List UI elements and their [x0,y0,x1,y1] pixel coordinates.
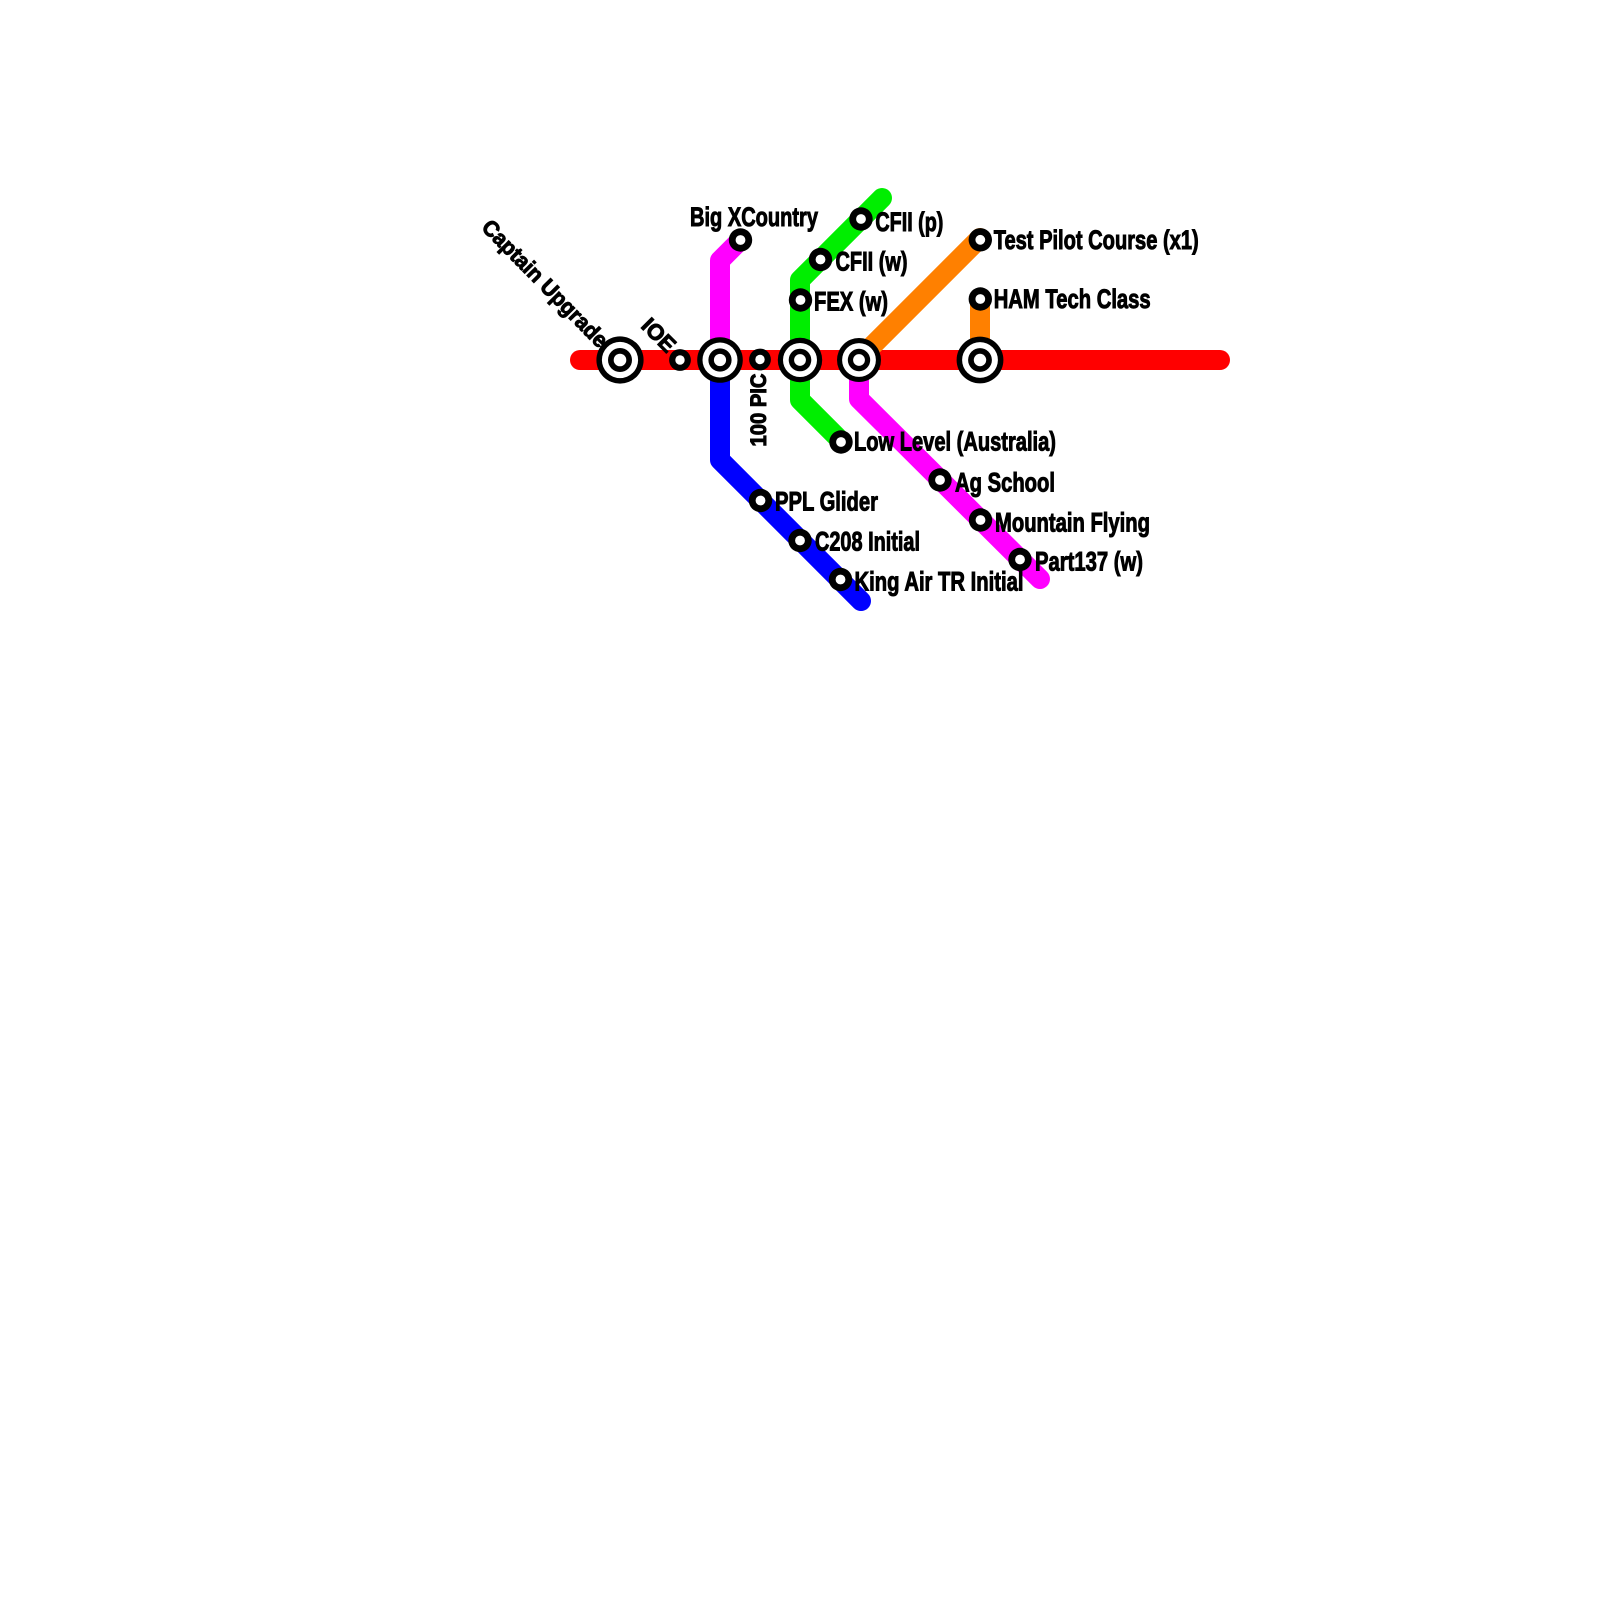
svg-text:HAM Tech Class: HAM Tech Class [994,284,1151,314]
svg-text:100 PIC: 100 PIC [746,373,771,446]
svg-text:Big XCountry: Big XCountry [690,202,818,232]
svg-text:FEX (w): FEX (w) [814,287,888,317]
svg-text:CFII (p): CFII (p) [875,207,943,237]
svg-text:Low Level (Australia): Low Level (Australia) [854,426,1056,456]
svg-text:Mountain Flying: Mountain Flying [995,507,1150,537]
svg-text:Part137 (w): Part137 (w) [1035,546,1143,576]
svg-text:Ag School: Ag School [955,467,1055,497]
svg-text:King Air TR Initial: King Air TR Initial [855,566,1024,596]
svg-text:CFII (w): CFII (w) [836,247,908,277]
svg-text:PPL Glider: PPL Glider [775,486,878,516]
svg-text:C208 Initial: C208 Initial [815,526,920,556]
svg-text:Test Pilot Course (x1): Test Pilot Course (x1) [994,225,1199,255]
